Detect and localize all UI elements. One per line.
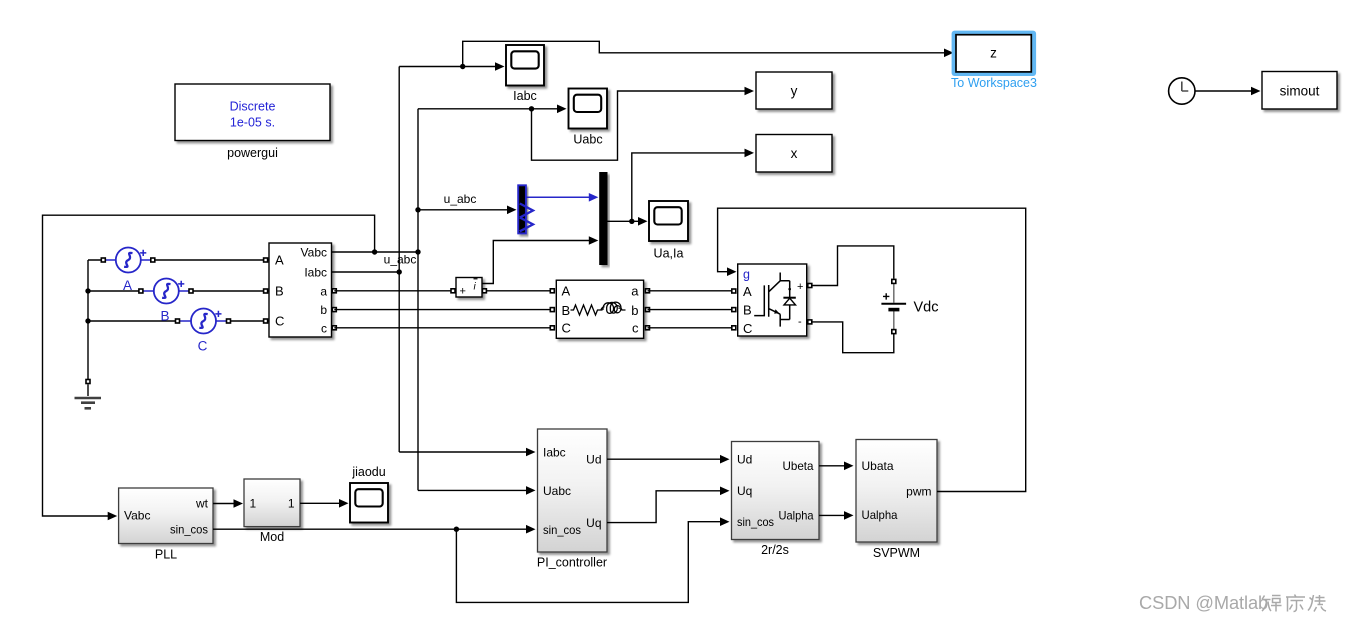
wire branch to y block	[532, 87, 755, 161]
node junction Vabc loop	[372, 249, 377, 254]
svg-text:u_abc: u_abc	[384, 253, 417, 267]
wire demux to mux (blue)	[527, 193, 599, 202]
svg-text:x: x	[791, 146, 798, 161]
svg-text:A: A	[743, 284, 752, 299]
svg-text:Uq: Uq	[737, 484, 752, 498]
wire phase a: meas to current sensor to RLC	[334, 290, 552, 292]
wire phase b	[334, 309, 552, 311]
svg-text:Uabc: Uabc	[573, 133, 602, 147]
subsystem SVPWM	[856, 440, 937, 561]
svg-text:sin_cos: sin_cos	[170, 523, 208, 537]
wire row A source	[88, 260, 269, 382]
net label u_abc lower	[384, 253, 417, 267]
svg-text:C: C	[275, 314, 284, 329]
svg-text:Iabc: Iabc	[513, 89, 537, 103]
wire RLC to bridge phase b	[648, 309, 734, 311]
subsystem 2r/2s	[732, 442, 820, 558]
svg-text:1e-05 s.: 1e-05 s.	[230, 116, 275, 130]
svg-text:Ubata: Ubata	[862, 459, 894, 473]
node mux output branch	[629, 219, 634, 224]
svg-text:b: b	[320, 303, 327, 317]
ground	[75, 379, 102, 409]
wire phase c	[334, 327, 552, 329]
mux	[599, 172, 607, 265]
svg-text:wt: wt	[195, 497, 209, 511]
svg-text:SVPWM: SVPWM	[873, 546, 920, 560]
universal bridge IGBT block	[731, 264, 813, 336]
svg-text:A: A	[275, 253, 284, 268]
wire branch to x block	[632, 149, 754, 222]
wire sin_cos to 2r/2s	[456, 517, 729, 602]
wire loop Vabc to PLL input	[43, 215, 375, 520]
scope jiaodu	[350, 465, 388, 523]
svg-text:B: B	[160, 309, 169, 324]
scope Uabc	[569, 89, 608, 147]
svg-text:+: +	[797, 281, 803, 293]
block simout	[1262, 72, 1337, 110]
scope Ua,Ia	[649, 201, 688, 261]
wire sin_cos main	[213, 525, 536, 534]
wire Iabc output	[331, 271, 399, 273]
wire Ubeta to SVPWM	[819, 462, 854, 471]
three-phase V-I measurement block	[263, 243, 337, 337]
node Iabc junction	[397, 269, 402, 274]
node Vabc-vertical junction	[415, 249, 420, 254]
wire RLC to bridge phase c	[648, 327, 734, 329]
svg-text:C: C	[743, 321, 752, 336]
svg-text:c: c	[632, 321, 639, 336]
svg-text:Iabc: Iabc	[304, 266, 327, 280]
svg-text:1: 1	[288, 497, 295, 511]
clock	[1169, 78, 1195, 104]
svg-text:c: c	[321, 321, 327, 335]
wire vertical Vabc bus to Uabc scope / demux / PI Uabc	[418, 105, 567, 495]
subsystem PLL	[119, 488, 213, 562]
svg-text:Ua,Ia: Ua,Ia	[654, 247, 684, 261]
watermark CSDN	[1139, 592, 1326, 613]
wire Vabc output	[331, 251, 418, 253]
wire u_abc to demux	[418, 206, 517, 215]
wire RLC to bridge phase a	[648, 290, 734, 292]
svg-text:Discrete: Discrete	[230, 100, 276, 114]
node Iabc scope branch	[460, 64, 465, 69]
block y	[756, 72, 832, 109]
svg-text:A: A	[562, 284, 571, 299]
svg-text:simout: simout	[1280, 84, 1320, 99]
wire bridge + to Vdc	[812, 246, 894, 286]
svg-text:Ud: Ud	[737, 452, 752, 466]
wire row C source	[88, 320, 269, 322]
node sin_cos branch	[454, 527, 459, 532]
svg-text:Uq: Uq	[586, 516, 601, 530]
svg-text:B: B	[562, 303, 571, 318]
svg-text:PI_controller: PI_controller	[537, 556, 607, 570]
svg-text:Vabc: Vabc	[301, 246, 327, 260]
svg-text:-: -	[798, 316, 802, 328]
svg-text:Ud: Ud	[586, 453, 601, 467]
svg-text:u_abc: u_abc	[444, 192, 477, 206]
svg-text:To Workspace3: To Workspace3	[951, 76, 1037, 90]
wire bridge - to Vdc	[812, 322, 894, 353]
svg-text:Ubeta: Ubeta	[783, 459, 814, 473]
wire row B source	[88, 290, 269, 292]
AC source B	[138, 279, 194, 324]
node Uabc scope branch	[529, 106, 534, 111]
wire Ualpha to SVPWM	[819, 511, 854, 520]
svg-text:+: +	[460, 286, 466, 298]
svg-text:C: C	[562, 321, 571, 336]
scope Iabc	[506, 45, 544, 103]
svg-text:PLL: PLL	[155, 548, 177, 562]
AC source C	[175, 309, 232, 354]
svg-text:powergui: powergui	[227, 146, 278, 160]
wire mux output to Ua,Ia scope	[608, 217, 648, 226]
svg-text:sin_cos: sin_cos	[737, 515, 774, 529]
svg-text:A: A	[123, 278, 132, 293]
node u_abc branch	[415, 207, 420, 212]
svg-text:a: a	[320, 285, 327, 299]
subsystem Mod	[244, 479, 300, 544]
demux (blue)	[518, 185, 533, 233]
svg-text:C: C	[198, 339, 208, 354]
DC voltage source Vdc	[881, 279, 938, 335]
svg-text:Iabc: Iabc	[543, 446, 566, 460]
net label u_abc upper	[444, 192, 477, 206]
wire PI Uq to 2r/2s Uq	[607, 487, 730, 523]
node bus C	[85, 318, 90, 323]
svg-text:B: B	[275, 284, 284, 299]
subsystem PI_controller	[537, 429, 607, 570]
wire i signal to mux	[482, 236, 599, 283]
wire branch to z block	[463, 41, 954, 66]
svg-text:Vdc: Vdc	[914, 300, 939, 316]
svg-text:B: B	[743, 303, 752, 318]
wire Mod to jiaodu scope	[300, 499, 349, 508]
svg-text:g: g	[743, 268, 750, 282]
To Workspace3 block z (selected)	[951, 31, 1037, 90]
svg-text:CSDN @Matlab: CSDN @Matlab	[1139, 592, 1268, 613]
wire pwm feedback to bridge g	[718, 208, 1026, 491]
wire PLL wt to Mod	[213, 499, 243, 508]
svg-text:Vabc: Vabc	[124, 509, 150, 523]
svg-text:z: z	[990, 46, 997, 61]
node bus B	[85, 288, 90, 293]
current measurement block	[450, 278, 487, 298]
wire PI Ud to 2r/2s Ud	[607, 455, 730, 464]
wire vertical Iabc to scope and PI	[399, 62, 535, 456]
svg-text:jiaodu: jiaodu	[351, 465, 385, 479]
svg-text:1: 1	[250, 497, 257, 511]
powergui block	[175, 84, 330, 160]
svg-text:Ualpha: Ualpha	[779, 509, 814, 523]
svg-text:2r/2s: 2r/2s	[761, 543, 789, 557]
block x	[756, 135, 832, 173]
svg-text:sin_cos: sin_cos	[543, 523, 581, 537]
svg-text:Ualpha: Ualpha	[862, 508, 898, 522]
svg-text:a: a	[631, 284, 639, 299]
svg-text:y: y	[791, 84, 798, 99]
AC source A	[101, 248, 156, 294]
wire clock to simout	[1195, 87, 1260, 96]
svg-text:b: b	[631, 303, 638, 318]
svg-text:pwm: pwm	[906, 485, 931, 499]
svg-text:Mod: Mod	[260, 530, 284, 544]
three-phase series RLC branch block	[550, 280, 651, 338]
svg-text:Uabc: Uabc	[543, 484, 571, 498]
